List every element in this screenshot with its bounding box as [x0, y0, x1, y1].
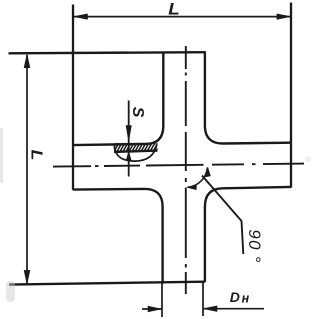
wire: upper-left body outline (arm left edge + TL fillet + pipe top-left edge)	[73, 52, 164, 145]
left end face of horizontal pipe (also left extension of top L dimension)	[72, 5, 74, 191]
hatching of wall section	[110, 142, 165, 154]
top end face of vertical arm (also top extension line of left dimension)	[9, 52, 206, 53]
Dn dimension line left segment	[142, 308, 162, 310]
S arrowhead pointing up at bore	[126, 152, 131, 161]
90-degree leader line	[202, 176, 243, 255]
wire: lower-left body outline (pipe bottom-left edge + BL fillet + arm left lower edge)	[73, 189, 163, 284]
arrowhead top of left dimension	[24, 54, 30, 67]
inner bore line of local section	[114, 151, 158, 152]
arrowhead of angle arc at horizontal centerline (pointing up)	[205, 167, 211, 177]
Dn arrowhead pointing left	[204, 306, 218, 312]
arrowhead left of L dimension	[74, 14, 88, 19]
Dn extension line left	[161, 281, 163, 317]
dimension line L (top)	[73, 16, 291, 18]
S leader line	[128, 101, 130, 177]
svg-text:S: S	[129, 107, 146, 118]
Dn dimension line right segment	[204, 308, 265, 310]
Dn extension line right	[202, 281, 204, 316]
arrowhead right of L dimension	[277, 14, 291, 19]
90-degree angle arc	[188, 167, 208, 187]
svg-text:L: L	[28, 150, 45, 161]
arrowhead of angle arc at vertical centerline (pointing left)	[187, 185, 196, 189]
wire: upper-right body outline (pipe top-right edge + TR fillet + arm right upper edge)	[205, 52, 291, 143]
bottom end face of vertical arm (also bottom extension of left dimension)	[9, 282, 205, 285]
arrowhead bottom of left dimension	[24, 270, 30, 284]
svg-text:Dн: Dн	[230, 289, 250, 306]
wire: lower-right body outline (arm right lower edge + BR fillet + pipe bottom-right edge)	[205, 187, 291, 282]
svg-text:L: L	[168, 0, 180, 18]
right end face of horizontal pipe (also right extension of top L dimension)	[290, 3, 292, 188]
horizontal centerline	[53, 164, 304, 167]
vertical centerline	[185, 46, 187, 294]
broken-out section boundary arc at S callout	[114, 143, 157, 161]
scan smudge lower-left	[0, 128, 311, 302]
S arrowhead pointing down at outer wall	[126, 126, 131, 142]
dimension line L (left, vertical)	[26, 55, 28, 284]
Dn arrowhead pointing right	[148, 306, 162, 312]
svg-text:90°: 90°	[245, 229, 264, 263]
